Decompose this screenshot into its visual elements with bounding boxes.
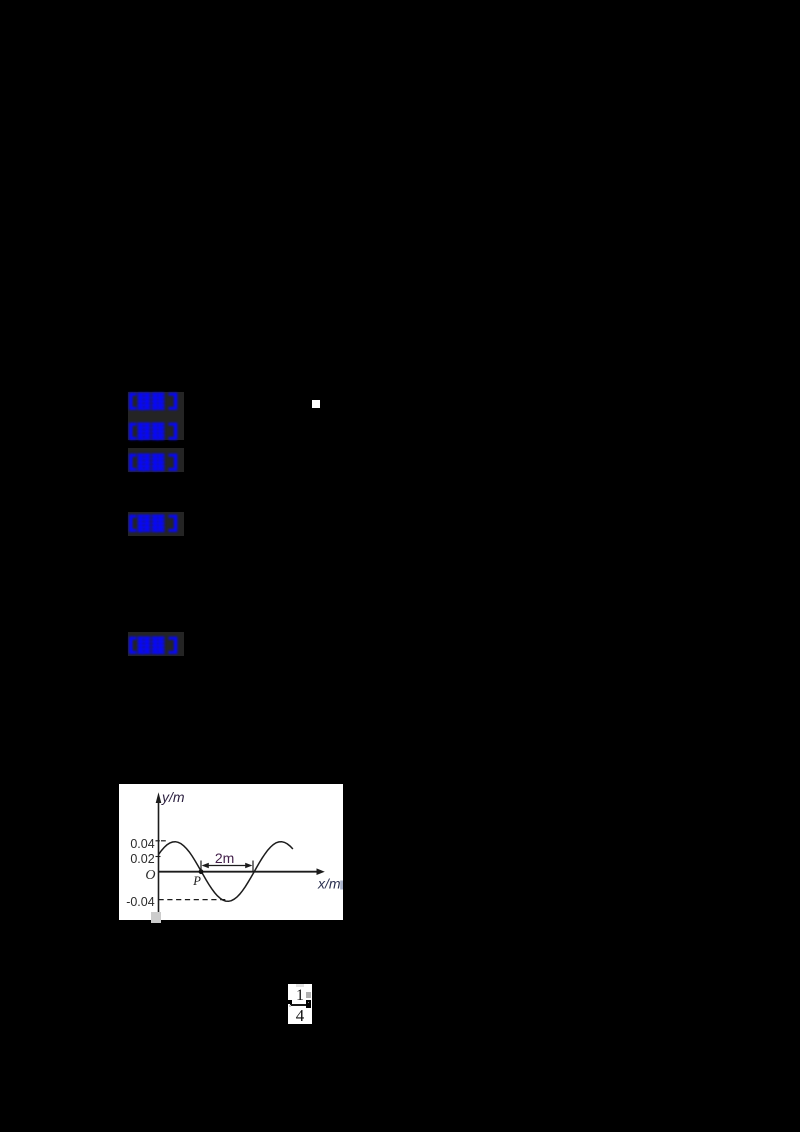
svg-text:x/m: x/m <box>317 876 341 892</box>
svg-text:0.04: 0.04 <box>130 837 154 851</box>
svg-text:0.02: 0.02 <box>130 852 154 866</box>
svg-text:y/m: y/m <box>161 789 185 805</box>
svg-text:O: O <box>145 868 155 883</box>
svg-text:-0.04: -0.04 <box>126 895 155 909</box>
svg-text:2m: 2m <box>215 850 234 866</box>
svg-text:P: P <box>192 874 201 888</box>
